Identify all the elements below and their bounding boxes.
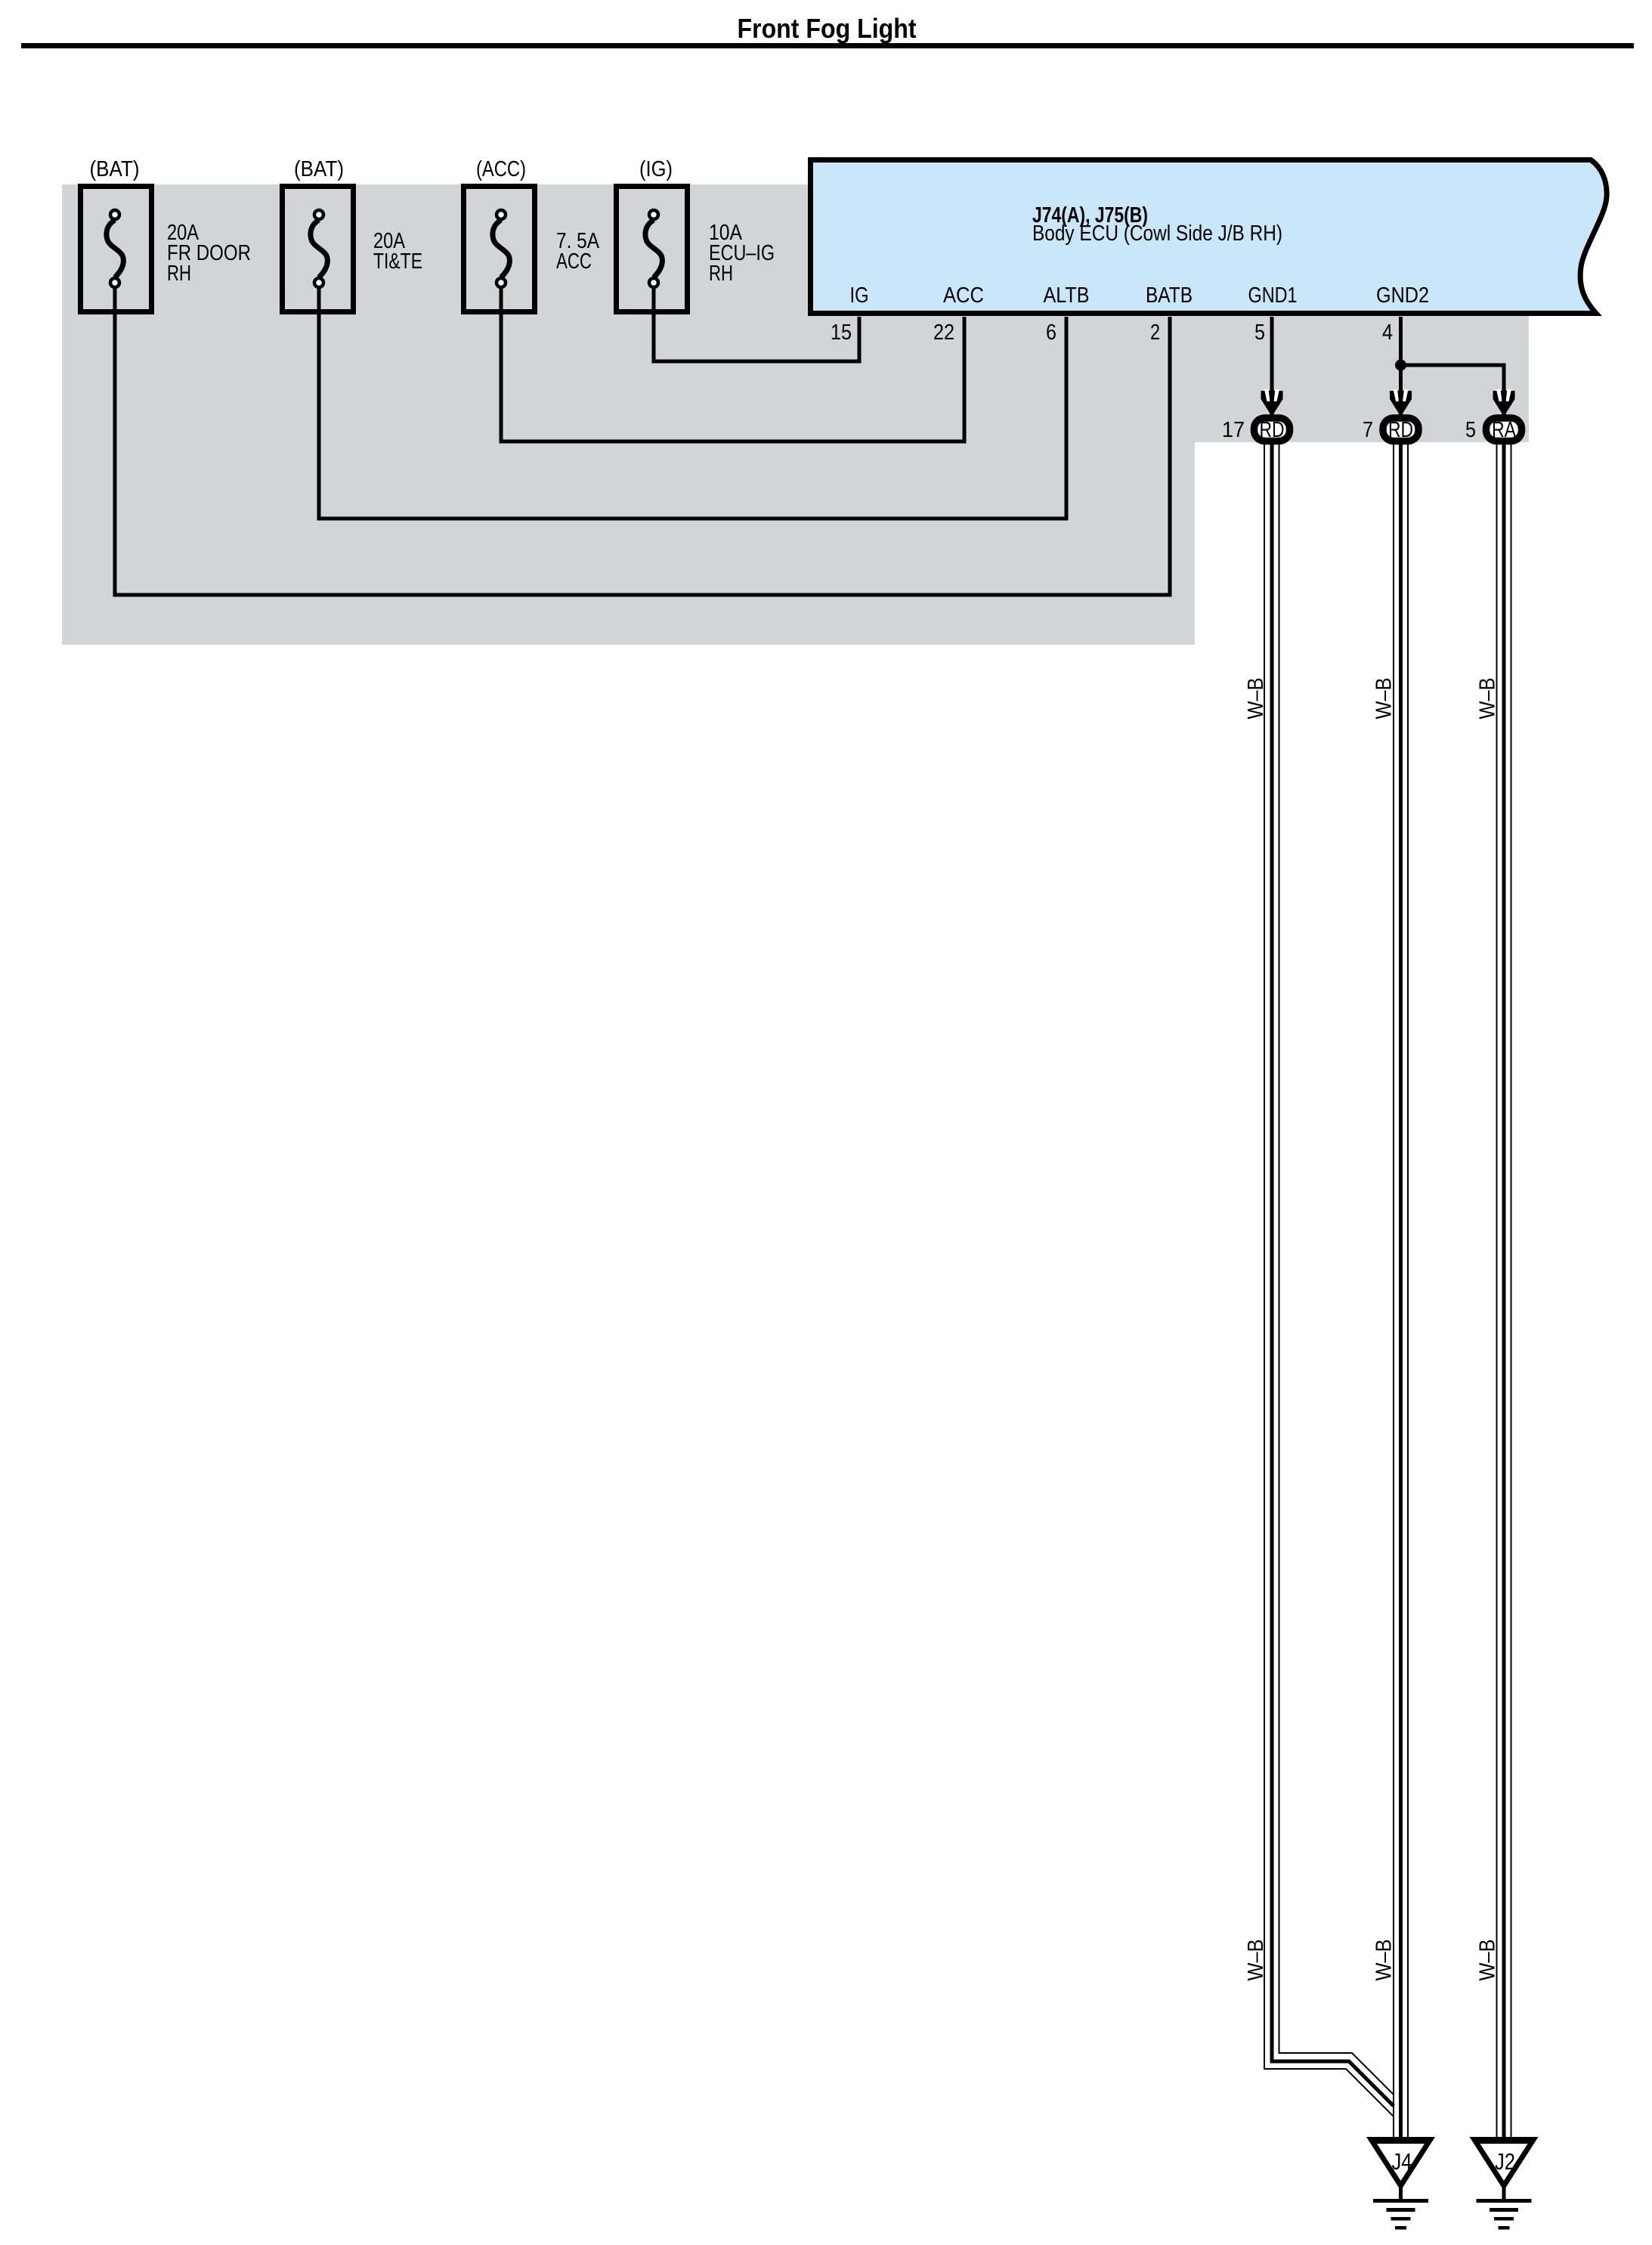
pin label ACC — [943, 283, 984, 308]
junction block gray shading — [62, 184, 1529, 645]
svg-text:W–B: W–B — [1372, 678, 1397, 720]
svg-text:(ACC): (ACC) — [476, 157, 526, 181]
wire label W-B upper 3 — [1476, 678, 1500, 720]
connector number 5 — [1465, 418, 1476, 442]
svg-text:15: 15 — [831, 320, 852, 345]
wire label W-B lower 3 — [1476, 1940, 1500, 1981]
connector oval RA 5 — [1486, 418, 1522, 442]
W-B wire 1 from connector RD 17 — [1264, 442, 1394, 2116]
wire label W-B upper 1 — [1244, 678, 1268, 720]
svg-text:J2: J2 — [1495, 2148, 1515, 2175]
svg-text:GND1: GND1 — [1248, 283, 1298, 308]
svg-text:(IG): (IG) — [639, 157, 673, 181]
svg-text:RA: RA — [1492, 418, 1517, 442]
svg-text:ACC: ACC — [943, 283, 984, 308]
fuse F4 10A ECU-IG RH — [617, 187, 688, 312]
svg-text:W–B: W–B — [1244, 678, 1268, 720]
connector number 17 — [1222, 418, 1245, 442]
svg-text:Front Fog Light: Front Fog Light — [738, 13, 917, 44]
svg-text:22: 22 — [933, 320, 954, 345]
pin number 22 — [933, 320, 954, 345]
svg-text:J4: J4 — [1392, 2148, 1412, 2175]
title Front Fog Light — [738, 13, 917, 44]
ground J2 — [1470, 2137, 1539, 2230]
fuse F2 label (BAT) — [294, 157, 344, 181]
W-B wire 2 from connector RD 7 to J4 — [1394, 442, 1408, 2141]
svg-text:RH: RH — [167, 262, 191, 286]
svg-text:2: 2 — [1150, 320, 1160, 345]
arrow into connector RA 5 — [1493, 389, 1515, 416]
fuse F3 7.5A ACC — [464, 187, 535, 312]
wire label W-B upper 2 — [1372, 678, 1397, 720]
svg-text:BATB: BATB — [1146, 283, 1193, 308]
pin label ALTB — [1044, 283, 1090, 308]
pin label BATB — [1146, 283, 1193, 308]
fuse F3 label (ACC) — [476, 157, 526, 181]
pin label IG — [850, 283, 869, 308]
title rule — [21, 43, 1634, 48]
svg-text:GND2: GND2 — [1376, 283, 1429, 308]
fuse F4 label (IG) — [639, 157, 673, 181]
svg-text:W–B: W–B — [1244, 1940, 1268, 1981]
wire label W-B lower 2 — [1372, 1940, 1397, 1981]
wire GND1 pin 5 stub — [1270, 317, 1274, 416]
fuse F1 value 20A FR DOOR RH — [167, 221, 251, 286]
svg-text:ALTB: ALTB — [1044, 283, 1090, 308]
svg-text:TI&TE: TI&TE — [373, 249, 422, 274]
svg-text:5: 5 — [1254, 320, 1265, 345]
ECU box subtitle Body ECU (Cowl Side J/B RH) — [1032, 221, 1282, 246]
pin label GND2 — [1376, 283, 1429, 308]
pin label GND1 — [1248, 283, 1298, 308]
svg-text:17: 17 — [1222, 418, 1245, 442]
svg-text:IG: IG — [850, 283, 869, 308]
svg-text:W–B: W–B — [1476, 1940, 1500, 1981]
svg-text:W–B: W–B — [1476, 678, 1500, 720]
wire fuse4 to IG pin 15 — [654, 289, 859, 361]
pin number 2 — [1150, 320, 1160, 345]
svg-text:(BAT): (BAT) — [294, 157, 344, 181]
svg-text:5: 5 — [1465, 418, 1476, 442]
pin number 15 — [831, 320, 852, 345]
wire label W-B lower 1 — [1244, 1940, 1268, 1981]
connector oval RD 7 — [1383, 418, 1418, 442]
fuse F1 label (BAT) — [90, 157, 140, 181]
connector number 7 — [1363, 418, 1373, 442]
svg-text:(BAT): (BAT) — [90, 157, 140, 181]
fuse F4 value 10A ECU-IG RH — [709, 221, 775, 286]
fuse F2 value 20A TI&TE — [373, 229, 422, 274]
svg-text:W–B: W–B — [1372, 1940, 1397, 1981]
svg-text:Body ECU (Cowl Side J/B RH): Body ECU (Cowl Side J/B RH) — [1032, 221, 1282, 246]
pin number 5 — [1254, 320, 1265, 345]
pin number 4 — [1382, 320, 1393, 345]
fuse F2 20A TI&TE — [283, 187, 354, 312]
wire GND2 pin 4 stub — [1399, 317, 1403, 416]
fuse F1 20A FR DOOR RH — [81, 187, 152, 312]
wire GND2 branch to RA — [1401, 365, 1505, 416]
ECU box J74(A) J75(B) — [811, 160, 1607, 314]
wire fuse1 to BATB pin 2 — [115, 289, 1170, 595]
fuse F3 value 7.5A ACC — [556, 229, 600, 274]
arrow into connector RD 7 — [1390, 389, 1412, 416]
junction dot GND2 branch — [1395, 360, 1406, 371]
svg-text:6: 6 — [1046, 320, 1056, 345]
arrow into connector RD 17 — [1261, 389, 1283, 416]
pin number 6 — [1046, 320, 1056, 345]
svg-text:RD: RD — [1260, 418, 1285, 442]
svg-text:RH: RH — [709, 262, 733, 286]
wire fuse3 to ACC pin 22 — [501, 289, 964, 441]
svg-text:RD: RD — [1388, 418, 1413, 442]
svg-text:7: 7 — [1363, 418, 1373, 442]
wire fuse2 to ALTB pin 6 — [319, 289, 1066, 519]
svg-text:ACC: ACC — [556, 249, 592, 274]
ECU box title J74(A), J75(B) — [1032, 203, 1148, 228]
connector oval RD 17 — [1254, 418, 1290, 442]
W-B wire 3 from connector RA 5 to J2 — [1497, 442, 1511, 2141]
svg-text:4: 4 — [1382, 320, 1393, 345]
ground J4 — [1366, 2137, 1435, 2230]
